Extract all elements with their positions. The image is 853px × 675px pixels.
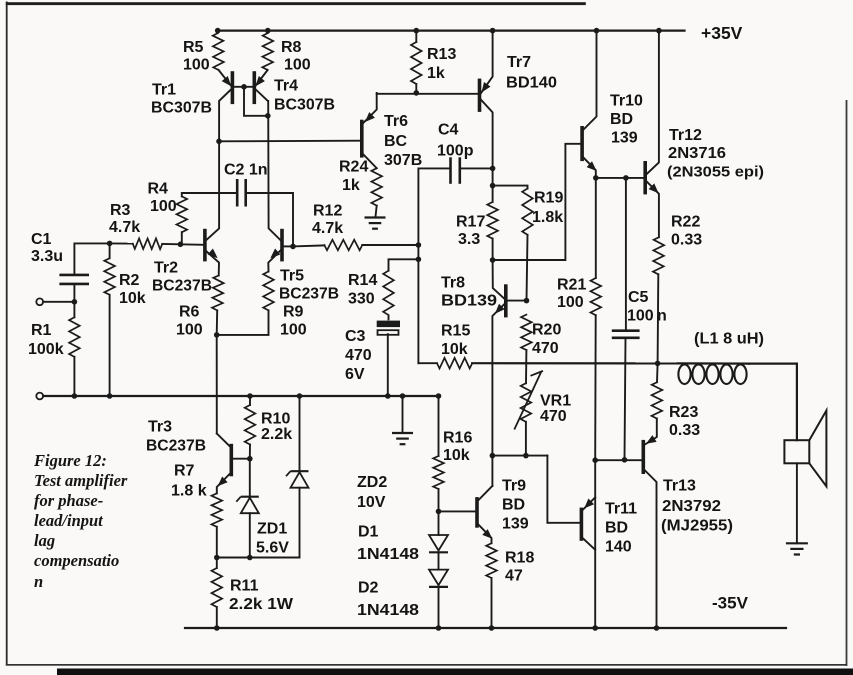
wire R16 top lead	[438, 396, 440, 456]
wire mirror output to Tr6 base	[219, 140, 360, 143]
svg-text:BD140: BD140	[506, 75, 557, 92]
wire R1 bottom lead	[73, 357, 75, 396]
node R17/R19 top	[490, 183, 496, 189]
wire Tr7 collector	[481, 100, 493, 169]
wire Tr8 emitter	[492, 304, 505, 486]
wire Tr10 emitter to Tr12 base	[596, 177, 644, 179]
wire D2 to -35V rail	[438, 587, 440, 628]
node R13 / +35V rail	[414, 28, 420, 34]
resistor R7	[212, 493, 223, 526]
svg-text:R8: R8	[281, 39, 302, 56]
svg-text:47: 47	[505, 568, 523, 585]
svg-text:Tr13: Tr13	[663, 478, 696, 495]
svg-text:0.33: 0.33	[669, 422, 700, 439]
svg-text:BC237B: BC237B	[152, 278, 212, 295]
node C1/input junction	[72, 299, 78, 305]
resistor R1	[69, 317, 80, 357]
wire Tr12 collector	[646, 31, 659, 175]
wire C4 node down	[492, 168, 494, 185]
node Tr7 collector / C4	[490, 166, 496, 172]
node R17 bottom / Tr10 base wire	[490, 257, 496, 263]
svg-text:R11: R11	[230, 578, 259, 595]
wire R21 top lead	[595, 178, 597, 278]
wire Tr9 base lead	[439, 510, 476, 512]
svg-text:1.8 k: 1.8 k	[171, 483, 207, 500]
wire VR1 bottom lead	[525, 422, 527, 456]
svg-text:10k: 10k	[443, 447, 470, 464]
svg-text:100: 100	[280, 322, 307, 339]
wire ZD1 top lead	[249, 459, 251, 497]
node ZD1 bottom	[247, 555, 253, 561]
svg-text:Tr12: Tr12	[669, 127, 702, 144]
node Tr8 emitter / VR1 wire	[490, 453, 496, 459]
node Tr2 base / R3 / R4	[178, 242, 184, 248]
node Tr8 base / R19 / R20	[524, 298, 530, 304]
wire R8 to Tr4 emitter	[256, 70, 268, 85]
wire Tr10 collector	[584, 31, 597, 130]
transistor Tr5 base bar	[280, 231, 284, 260]
svg-text:R18: R18	[505, 550, 534, 567]
node R5 / +35V rail	[215, 28, 221, 34]
diode D1	[429, 535, 448, 552]
wire Tr3 base lead	[233, 458, 250, 460]
node C5 / Tr13 base wire	[622, 457, 628, 463]
inductor L1	[678, 364, 746, 384]
svg-text:n: n	[34, 572, 43, 591]
svg-text:Tr10: Tr10	[610, 93, 643, 110]
svg-text:100p: 100p	[437, 143, 474, 160]
svg-text:4.7k: 4.7k	[312, 220, 343, 237]
node R12 / C4	[416, 242, 422, 248]
input terminal (bottom)	[36, 393, 43, 400]
node R6/R9 tail	[214, 332, 220, 338]
svg-text:R5: R5	[183, 39, 204, 56]
svg-text:4.7k: 4.7k	[109, 219, 140, 236]
node output / R22 / R23	[655, 361, 661, 367]
input terminal (top)	[36, 298, 43, 305]
svg-text:(L1 8 uH): (L1 8 uH)	[694, 331, 764, 348]
node Tr5 base / C2 / R12	[290, 244, 296, 250]
wire R2 bottom lead	[109, 295, 111, 396]
transistor Tr11 base bar	[580, 509, 584, 539]
svg-text:100: 100	[557, 294, 584, 311]
wire VAS bias rail	[377, 93, 478, 95]
wire Tr12 emitter	[646, 181, 659, 237]
transistor Tr9 base bar	[475, 499, 479, 526]
svg-text:C1: C1	[31, 231, 52, 248]
svg-text:R19: R19	[534, 190, 563, 207]
node ground stem / rail	[400, 393, 406, 399]
resistor R17	[487, 202, 498, 239]
resistor R9	[263, 272, 274, 311]
resistor R8	[262, 33, 273, 70]
resistor R20	[521, 315, 532, 350]
capacitor C5	[612, 331, 640, 338]
svg-text:Tr8: Tr8	[441, 275, 465, 292]
node R14 tap	[416, 257, 422, 263]
svg-text:330: 330	[348, 291, 375, 308]
svg-text:R6: R6	[179, 304, 200, 321]
svg-text:100k: 100k	[28, 341, 64, 358]
wire Tr8 base lead	[508, 300, 527, 302]
resistor R15	[437, 358, 472, 369]
wire Tr3 collector	[217, 434, 230, 447]
svg-text:(MJ2955): (MJ2955)	[661, 518, 733, 535]
node R16 / D1 / Tr9 base	[436, 509, 442, 515]
wire Tr13 base wire	[595, 459, 641, 461]
svg-text:BC: BC	[384, 133, 408, 150]
wire ZD1 bottom lead	[249, 513, 251, 557]
svg-text:R1: R1	[31, 322, 52, 339]
svg-text:BD139: BD139	[441, 293, 497, 310]
svg-text:2.2k 1W: 2.2k 1W	[229, 596, 294, 613]
wire Tr6 collector	[363, 154, 377, 168]
wire C5 top lead	[625, 178, 627, 331]
svg-text:470: 470	[540, 408, 567, 425]
wire ZD2 bottom lead	[299, 488, 301, 558]
arrow Tr11 emitter (PNP)	[584, 499, 594, 509]
node R8 / +35V rail	[265, 28, 271, 34]
svg-text:R13: R13	[427, 46, 456, 63]
node ZD2 / ground rail	[297, 393, 303, 399]
arrow Tr2 emitter (NPN)	[208, 249, 218, 259]
wire R18 bottom lead	[491, 578, 493, 628]
wire output to speaker	[749, 364, 797, 441]
svg-text:Tr9: Tr9	[502, 478, 526, 495]
svg-text:R2: R2	[119, 272, 140, 289]
wire Tr11 collector	[583, 538, 595, 550]
svg-text:R7: R7	[174, 463, 195, 480]
svg-text:Tr1: Tr1	[152, 82, 176, 99]
resistor R21	[591, 278, 602, 315]
svg-text:lag: lag	[34, 531, 55, 550]
node base tie	[241, 84, 247, 90]
svg-text:-35V: -35V	[712, 594, 749, 613]
wire speaker to ground	[796, 463, 798, 543]
wire Tr2 emitter	[205, 250, 219, 276]
wire D1 top lead	[438, 511, 440, 535]
capacitor C1	[59, 275, 89, 284]
wire R12 left lead	[293, 245, 324, 246]
transistor Tr1 base bar	[231, 73, 235, 102]
svg-text:2N3716: 2N3716	[668, 145, 726, 162]
node Tr3 base / R10 / ZD1	[247, 456, 253, 462]
resistor R14	[383, 271, 394, 315]
resistor R2	[104, 258, 115, 295]
ground below input rail	[392, 433, 413, 444]
svg-text:R9: R9	[283, 304, 304, 321]
node C5 top	[623, 175, 629, 181]
svg-text:Tr3: Tr3	[148, 419, 172, 436]
wire C5 bottom lead	[625, 338, 626, 460]
node Tr10 collector / +35V rail	[594, 28, 600, 34]
wire down to Tr11 base	[547, 456, 579, 523]
svg-text:10k: 10k	[119, 290, 146, 307]
resistor R11	[212, 568, 223, 607]
arrow Tr7 emitter (PNP)	[482, 82, 491, 93]
svg-text:BC307B: BC307B	[151, 100, 212, 117]
svg-text:R4: R4	[148, 181, 169, 198]
svg-text:470: 470	[532, 340, 559, 357]
transistor Tr10 base bar	[580, 128, 584, 160]
wire Tr2 base lead	[180, 243, 203, 246]
wire Tr1 collector	[219, 89, 232, 141]
node R16 / ground rail	[436, 393, 442, 399]
svg-text:C2 1n: C2 1n	[224, 162, 268, 179]
capacitor C2	[237, 179, 246, 207]
node R13 / Tr6 emitter wire	[414, 90, 420, 96]
transistor Tr13 base bar	[641, 442, 645, 473]
arrow Tr12 emitter (NPN)	[649, 183, 659, 193]
arrow Tr13 emitter (PNP)	[646, 435, 657, 444]
svg-text:0.33: 0.33	[671, 232, 702, 249]
capacitor C4	[451, 157, 460, 184]
svg-text:307B: 307B	[384, 152, 422, 169]
svg-text:VR1: VR1	[540, 393, 571, 410]
wire R1 top lead	[73, 302, 75, 318]
svg-text:for phase-: for phase-	[34, 491, 103, 510]
wire Tr5 base lead	[282, 245, 293, 247]
node R2/R3/C1	[107, 241, 113, 247]
svg-text:R16: R16	[443, 430, 472, 447]
wire R5 to Tr1 emitter	[219, 70, 231, 85]
svg-text:BD: BD	[502, 497, 525, 514]
transistor Tr2 base bar	[203, 231, 207, 260]
wire Tr7 emitter	[481, 31, 492, 93]
node VR1 bottom	[523, 453, 529, 459]
wire R13 top lead	[415, 31, 417, 42]
wire Tr6 emitter	[363, 93, 377, 123]
wire R4 bottom lead	[181, 232, 183, 244]
transistor Tr7 base bar	[478, 80, 482, 110]
svg-text:140: 140	[605, 539, 632, 556]
wire R11 top lead	[216, 558, 218, 569]
wire R19 bottom to Tr8 base	[527, 235, 528, 301]
node R18 / -35V rail	[489, 625, 495, 631]
wire to Tr10 base	[493, 144, 581, 260]
wire C1 bottom lead	[73, 284, 75, 302]
svg-text:R24: R24	[339, 159, 368, 176]
arrow Tr6 emitter (PNP)	[365, 112, 375, 122]
wire input terminal to C1	[43, 301, 74, 303]
wire R14 top lead	[389, 259, 419, 270]
svg-text:R12: R12	[313, 203, 342, 220]
wire -35V rail	[185, 627, 786, 629]
wire R20 to VR1	[525, 350, 527, 383]
wire node down to R14 tap	[417, 245, 419, 259]
resistor R16	[433, 456, 444, 489]
diode D2	[429, 570, 448, 587]
ground below speaker	[786, 543, 808, 554]
wire ground stem	[402, 396, 404, 433]
wire R3 left lead	[110, 242, 133, 244]
resistor R13	[411, 42, 422, 84]
resistor R18	[486, 543, 497, 578]
transistor Tr4 base bar	[253, 73, 257, 102]
resistor R24	[371, 168, 382, 205]
node C3 / ground rail	[385, 393, 391, 399]
svg-text:lead/input: lead/input	[34, 511, 103, 530]
svg-text:100: 100	[284, 57, 311, 74]
svg-text:R3: R3	[110, 202, 131, 219]
svg-text:ZD2: ZD2	[357, 474, 387, 491]
svg-text:R20: R20	[532, 322, 561, 339]
wire Tr9 collector	[479, 486, 493, 500]
svg-text:compensatio: compensatio	[34, 551, 119, 570]
svg-text:Tr6: Tr6	[384, 113, 408, 130]
speaker	[784, 411, 826, 487]
arrow VR1 wiper	[514, 371, 543, 430]
svg-text:C4: C4	[438, 122, 459, 139]
arrow Tr3 emitter (NPN)	[218, 477, 228, 487]
resistor R3	[133, 238, 163, 249]
svg-text:3.3u: 3.3u	[31, 248, 63, 265]
svg-text:R22: R22	[671, 214, 700, 231]
svg-text:BD: BD	[610, 111, 633, 128]
transistor Tr3 base bar	[230, 446, 234, 475]
arrow Tr8 emitter (NPN)	[495, 304, 505, 314]
node R1/ground rail	[72, 393, 78, 399]
wire Tr2 collector	[205, 141, 219, 241]
node R10 / ground rail	[247, 393, 253, 399]
wire R6 bottom lead	[216, 310, 219, 335]
svg-text:139: 139	[611, 130, 638, 147]
svg-text:100: 100	[183, 57, 210, 74]
svg-text:Tr4: Tr4	[274, 78, 298, 95]
svg-text:D2: D2	[358, 580, 379, 597]
wire R11 bottom lead	[216, 607, 218, 628]
wire Tr1/Tr4 base tie	[232, 86, 254, 88]
svg-text:R15: R15	[441, 323, 470, 340]
svg-text:C3: C3	[345, 328, 366, 345]
svg-text:2N3792: 2N3792	[662, 498, 721, 515]
node Tr1/Tr2 collectors	[216, 139, 222, 145]
node Tr11 collector / -35V rail	[592, 625, 598, 631]
wire R7 bottom lead	[216, 527, 218, 558]
wire C2 right to Tr5 base	[246, 193, 293, 246]
node Tr4 collector diode tie	[265, 113, 271, 119]
resistor R19	[522, 189, 533, 235]
svg-text:BC237B: BC237B	[279, 286, 339, 303]
svg-text:R17: R17	[456, 214, 485, 231]
svg-text:Figure 12:: Figure 12:	[33, 451, 107, 470]
transistor Tr8 base bar	[504, 286, 508, 316]
svg-text:1N4148: 1N4148	[357, 546, 419, 563]
wire R12 right lead	[362, 244, 418, 246]
wire input/ground rail	[43, 395, 438, 397]
wire R13 bottom lead	[415, 84, 417, 93]
wire R17 top lead	[492, 186, 494, 202]
svg-text:1N4148: 1N4148	[357, 602, 419, 619]
svg-text:2.2k: 2.2k	[261, 426, 292, 443]
svg-text:+35V: +35V	[701, 23, 743, 43]
svg-text:470: 470	[345, 347, 372, 364]
wire Tr4 collector	[255, 89, 268, 101]
wire R3 right lead	[162, 243, 180, 245]
wire base tie to Tr4 collector	[244, 87, 268, 116]
resistor R6	[212, 276, 224, 311]
node R2/ground rail	[107, 393, 113, 399]
arrow Tr4 emitter (PNP)	[255, 76, 265, 86]
wire Tr11 emitter	[583, 497, 595, 510]
arrow Tr10 emitter (NPN)	[587, 161, 597, 171]
svg-text:1.8k: 1.8k	[532, 209, 563, 226]
arrow Tr1 emitter (PNP)	[222, 76, 232, 86]
capacitor C3	[377, 315, 400, 396]
wire R21 bottom lead	[594, 315, 597, 460]
svg-text:R10: R10	[261, 411, 290, 428]
wire ZD2 top lead	[299, 396, 301, 471]
zener diode ZD2	[286, 471, 309, 488]
svg-text:Tr5: Tr5	[280, 268, 304, 285]
wire R10 top lead	[249, 396, 251, 405]
resistor R10	[245, 405, 256, 445]
svg-text:100: 100	[627, 308, 654, 325]
svg-text:10k: 10k	[441, 341, 468, 358]
wire Tr5 emitter	[268, 250, 281, 272]
svg-text:139: 139	[502, 516, 529, 533]
node R11 / -35V rail	[214, 625, 220, 631]
svg-text:R14: R14	[348, 272, 377, 289]
wire VR1 node to Tr11 base	[492, 455, 547, 457]
svg-text:5.6V: 5.6V	[256, 540, 289, 557]
resistor R12	[324, 240, 362, 251]
wire L1 line	[678, 362, 749, 364]
svg-text:ZD1: ZD1	[257, 521, 287, 538]
svg-text:Tr11: Tr11	[605, 501, 637, 518]
wire R4 top to C2 left	[182, 193, 237, 196]
wire R2 top lead	[109, 243, 111, 258]
wire C4 left to feedback node	[418, 168, 450, 245]
svg-text:R21: R21	[557, 277, 586, 294]
svg-text:6V: 6V	[345, 366, 365, 383]
node R7 / R11 / zener wire	[214, 555, 220, 561]
wire tail node down to Tr3 collector	[216, 335, 218, 434]
wire R19 top lead	[493, 186, 528, 189]
wire feedback node down to R15	[417, 259, 419, 363]
node R21 / Tr13 base wire	[592, 457, 598, 463]
resistor R23	[652, 382, 663, 418]
resistor R5	[213, 33, 224, 70]
svg-text:10V: 10V	[357, 494, 386, 511]
wire R16 bottom lead	[438, 489, 440, 511]
node Tr12 collector / +35V rail	[656, 28, 662, 34]
svg-text:BD: BD	[605, 520, 628, 537]
wire Tr10 emitter	[584, 158, 596, 178]
ground below R24	[365, 218, 386, 229]
wire ZD2 to R7/R11 node	[217, 557, 300, 559]
svg-text:BC307B: BC307B	[274, 97, 335, 114]
arrow Tr5 emitter (NPN)	[270, 249, 280, 259]
zener diode ZD1	[236, 497, 258, 514]
wire Tr8 collector	[493, 260, 505, 299]
wire R24 bottom lead	[375, 206, 376, 218]
wire R23 to Tr13 emitter	[645, 419, 657, 445]
wire D1-D2 link	[438, 552, 440, 569]
wire R17 bottom lead	[492, 239, 494, 260]
wire Tr3 emitter	[217, 474, 230, 494]
resistor R4	[177, 196, 188, 232]
wire C1 top to R2/R3 node	[74, 243, 109, 275]
node Tr10 emitter / R21	[593, 175, 599, 181]
wire Tr13 collector	[645, 470, 657, 628]
svg-text:Tr7: Tr7	[507, 54, 531, 71]
node D2 / -35V rail	[436, 625, 442, 631]
svg-text:1k: 1k	[427, 65, 445, 82]
wire R23 top lead	[656, 363, 659, 382]
arrow Tr9 emitter (NPN)	[482, 529, 492, 539]
wire Tr5 collector	[268, 101, 281, 241]
